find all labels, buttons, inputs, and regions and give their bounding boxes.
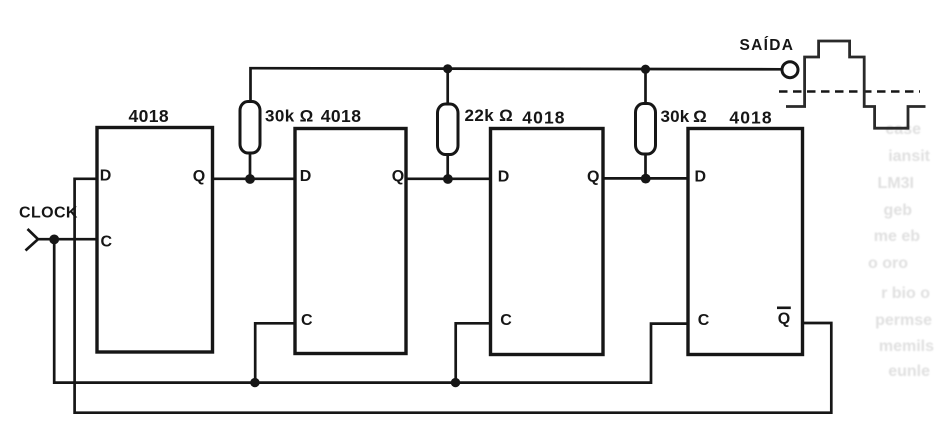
svg-text:4018: 4018 [729,108,772,128]
svg-text:me eb: me eb [874,228,920,245]
svg-text:memils: memils [879,338,934,355]
svg-text:30k Ω: 30k Ω [661,107,707,126]
svg-text:22k Ω: 22k Ω [465,106,514,125]
svg-text:CLOCK: CLOCK [19,204,78,221]
svg-text:D: D [498,169,510,186]
svg-text:D: D [300,168,312,185]
svg-text:iansit: iansit [888,148,930,165]
svg-text:eunle: eunle [888,363,930,380]
svg-text:4018: 4018 [321,106,362,126]
svg-text:C: C [101,233,113,250]
svg-text:o oro: o oro [868,255,908,272]
svg-text:30k Ω: 30k Ω [265,107,314,126]
svg-text:Q: Q [587,169,599,186]
svg-text:C: C [500,312,512,329]
svg-text:r bio o: r bio o [881,285,930,302]
svg-text:Q: Q [778,310,790,327]
svg-text:4018: 4018 [129,106,170,126]
svg-text:geb: geb [884,202,913,219]
svg-text:Q: Q [193,168,205,185]
svg-text:D: D [695,169,707,186]
svg-text:4018: 4018 [522,108,565,128]
svg-text:permse: permse [875,312,932,329]
svg-text:Q: Q [392,168,404,185]
svg-text:C: C [301,312,313,329]
svg-text:C: C [698,312,710,329]
svg-text:D: D [100,168,112,185]
svg-text:SAÍDA: SAÍDA [740,37,795,54]
svg-text:LM3I: LM3I [878,175,914,192]
